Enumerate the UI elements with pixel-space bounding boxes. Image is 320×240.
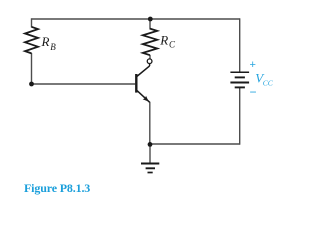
svg-text:C: C	[169, 40, 176, 50]
svg-text:−: −	[250, 85, 257, 99]
svg-text:B: B	[50, 42, 56, 52]
svg-text:Figure P8.1.3: Figure P8.1.3	[24, 181, 90, 195]
svg-text:R: R	[159, 32, 168, 47]
svg-text:+: +	[250, 59, 256, 71]
svg-text:CC: CC	[263, 79, 274, 88]
svg-text:R: R	[41, 34, 50, 49]
